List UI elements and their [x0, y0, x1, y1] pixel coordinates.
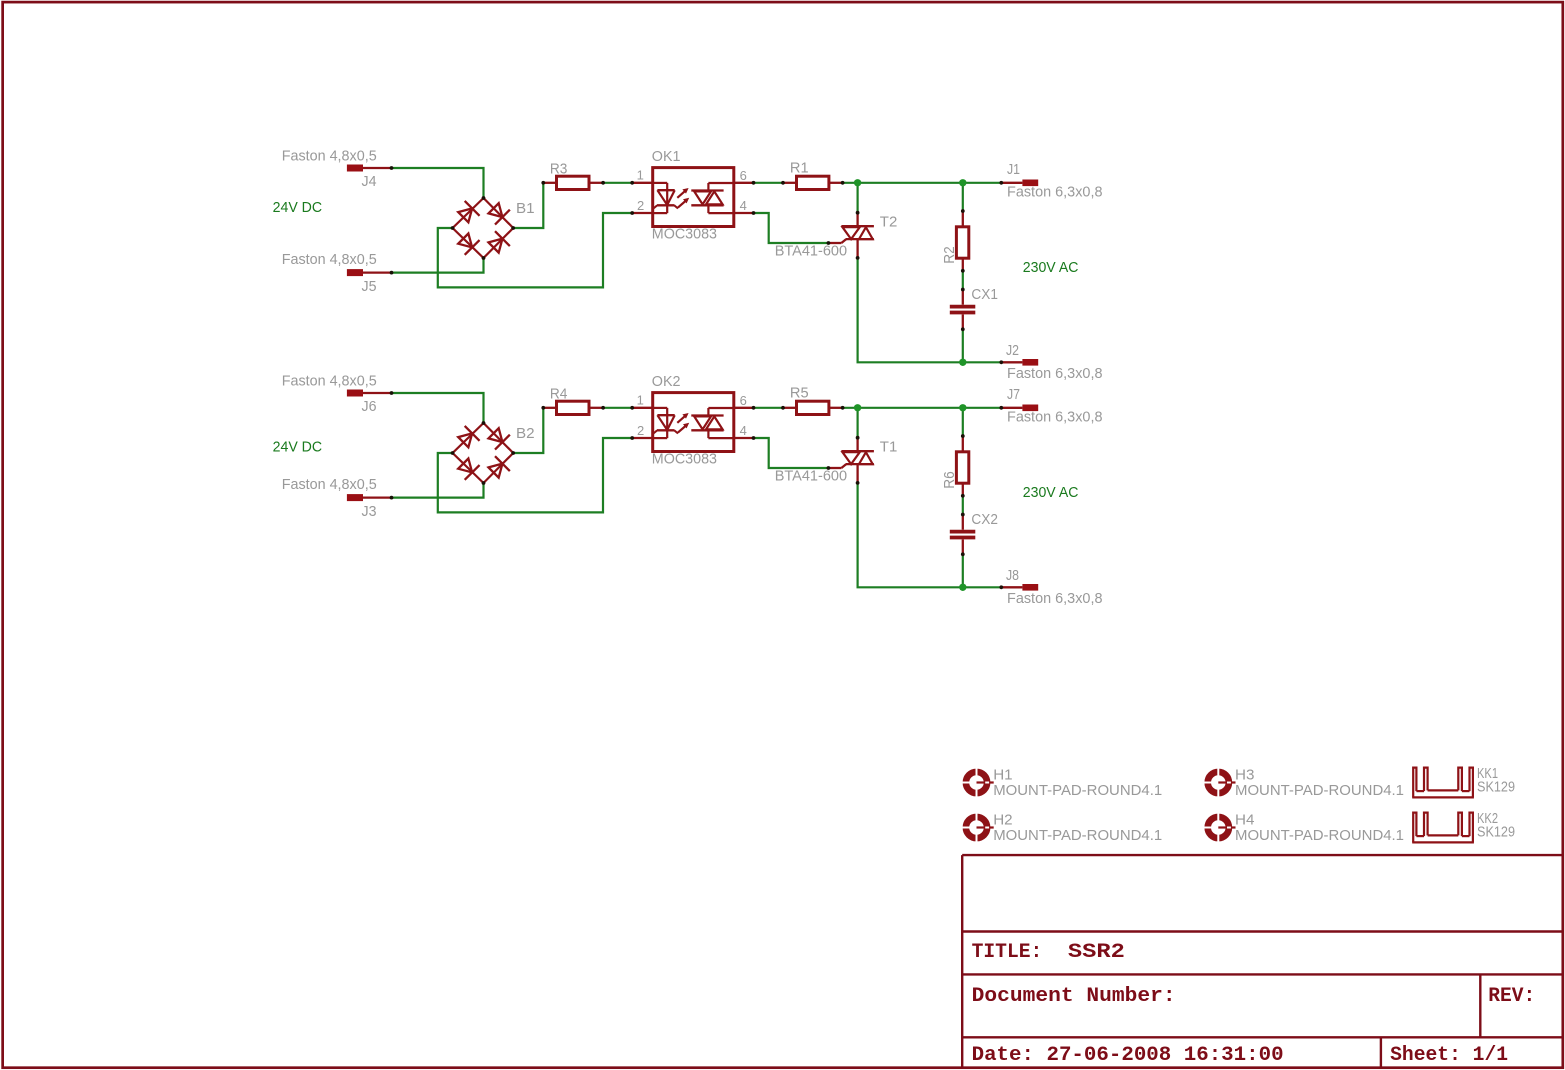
opto light arrows [677, 191, 685, 198]
svg-text:Faston 4,8x0,5: Faston 4,8x0,5 [282, 147, 377, 164]
wire: bridge left vertex to optocoupler pin 2 [438, 213, 632, 287]
opto pin 1 [632, 182, 653, 184]
svg-text:MOC3083: MOC3083 [652, 226, 717, 243]
svg-text:Faston 4,8x0,5: Faston 4,8x0,5 [282, 476, 377, 493]
svg-text:J5: J5 [362, 278, 377, 295]
input resistor (left) [543, 182, 556, 184]
snubber resistor (vertical) [962, 211, 964, 227]
svg-text:Sheet: 1/1: Sheet: 1/1 [1390, 1044, 1508, 1067]
bridge diode bottom-left [456, 231, 480, 255]
heatsink KK2 [1412, 813, 1474, 843]
svg-text:CX2: CX2 [971, 511, 998, 528]
svg-text:R3: R3 [550, 161, 568, 178]
svg-text:J6: J6 [362, 398, 377, 415]
connector pad J (230V top) [1022, 180, 1038, 187]
svg-text:H4: H4 [1235, 812, 1254, 829]
junction node at snubber top [959, 179, 966, 186]
channel 1 circuit [347, 165, 1038, 366]
svg-text:B1: B1 [516, 200, 535, 217]
svg-text:J8: J8 [1006, 567, 1019, 584]
svg-text:CX1: CX1 [971, 286, 998, 303]
wire: J5 pad to bridge bottom [393, 258, 484, 273]
svg-text:H2: H2 [993, 812, 1012, 829]
bridge vertex dots [482, 196, 486, 200]
channel 2 circuit [347, 390, 1038, 592]
svg-text:1: 1 [637, 168, 644, 183]
svg-text:2: 2 [637, 198, 644, 213]
opto pin 2 [632, 212, 653, 214]
svg-text:6: 6 [740, 168, 747, 183]
opto internal LED [653, 182, 668, 184]
svg-text:Faston 6,3x0,8: Faston 6,3x0,8 [1007, 409, 1103, 426]
svg-text:Faston 6,3x0,8: Faston 6,3x0,8 [1007, 365, 1103, 382]
svg-text:BTA41-600: BTA41-600 [775, 243, 847, 260]
wire: opto pin 4 to triac gate [754, 213, 829, 243]
output resistor [783, 182, 797, 184]
svg-text:230V AC: 230V AC [1023, 484, 1079, 501]
svg-text:B2: B2 [516, 425, 535, 442]
wire: snubber resistor to capacitor [962, 271, 964, 290]
svg-text:J3: J3 [362, 503, 377, 520]
svg-text:SK129: SK129 [1477, 779, 1515, 796]
opto pin 4 [734, 212, 754, 214]
connector pad J (24V top) [347, 165, 363, 172]
svg-text:SK129: SK129 [1477, 824, 1515, 841]
mount pad H3 [1203, 768, 1235, 798]
mount pad H2 [962, 813, 994, 843]
svg-text:REV:: REV: [1488, 985, 1535, 1008]
svg-text:H3: H3 [1235, 767, 1254, 784]
svg-text:H1: H1 [993, 767, 1012, 784]
connector pad J (230V bottom) [1022, 359, 1038, 366]
svg-text:Faston 4,8x0,5: Faston 4,8x0,5 [282, 372, 377, 389]
svg-text:R6: R6 [941, 471, 958, 489]
svg-text:J4: J4 [362, 173, 377, 190]
svg-text:Faston 6,3x0,8: Faston 6,3x0,8 [1007, 184, 1103, 201]
svg-text:Document Number:: Document Number: [972, 985, 1176, 1008]
wire: triac cathode to bottom rail [858, 258, 1002, 362]
svg-text:6: 6 [740, 393, 747, 408]
svg-text:R4: R4 [550, 386, 568, 403]
svg-text:R2: R2 [941, 246, 958, 264]
opto internal triac [708, 182, 733, 184]
wire: output resistor to J-pad node [843, 182, 1002, 184]
svg-text:J2: J2 [1006, 342, 1019, 359]
svg-text:4: 4 [740, 423, 747, 438]
svg-text:R1: R1 [790, 160, 809, 177]
wire: resistor to opto pin 1 [603, 182, 632, 184]
svg-text:MOUNT-PAD-ROUND4.1: MOUNT-PAD-ROUND4.1 [993, 782, 1162, 799]
svg-text:R5: R5 [790, 385, 809, 402]
connector pad J (24V bottom) [347, 269, 363, 276]
svg-text:230V AC: 230V AC [1023, 259, 1079, 276]
svg-text:T2: T2 [880, 213, 898, 230]
svg-text:1: 1 [637, 393, 644, 408]
svg-text:OK1: OK1 [652, 148, 681, 165]
wire: node to snubber resistor [962, 183, 964, 211]
svg-text:TITLE:: TITLE: [972, 941, 1043, 964]
svg-text:Faston 6,3x0,8: Faston 6,3x0,8 [1007, 590, 1103, 607]
wire: bridge right vertex to R series resistor [513, 183, 543, 228]
bridge diode bottom-right [486, 231, 510, 255]
svg-text:24V DC: 24V DC [273, 199, 323, 216]
wire: opto pin 6 to output resistor [754, 182, 784, 184]
title block outline [961, 855, 963, 1068]
svg-text:J7: J7 [1007, 386, 1020, 403]
triac gate pin [828, 242, 841, 244]
svg-text:MOUNT-PAD-ROUND4.1: MOUNT-PAD-ROUND4.1 [1235, 782, 1404, 799]
svg-text:4: 4 [740, 198, 747, 213]
svg-text:Date: 27-06-2008 16:31:00: Date: 27-06-2008 16:31:00 [972, 1044, 1284, 1067]
svg-text:MOUNT-PAD-ROUND4.1: MOUNT-PAD-ROUND4.1 [993, 827, 1162, 844]
triac (discrete) [856, 213, 858, 227]
bridge diode top-right [486, 201, 510, 225]
svg-text:MOUNT-PAD-ROUND4.1: MOUNT-PAD-ROUND4.1 [1235, 827, 1404, 844]
wire: capacitor to bottom rail [962, 329, 964, 362]
opto pin 6 [734, 182, 754, 184]
svg-text:SSR2: SSR2 [1068, 941, 1125, 964]
junction node at snubber bottom [959, 359, 966, 366]
heatsink KK1 [1412, 768, 1474, 798]
wire: node to triac anode [856, 183, 858, 213]
wire: J4 pad to bridge top [393, 168, 484, 198]
svg-text:Faston 4,8x0,5: Faston 4,8x0,5 [282, 251, 377, 268]
svg-text:J1: J1 [1007, 161, 1020, 178]
snubber capacitor [962, 290, 964, 305]
svg-text:24V DC: 24V DC [273, 439, 323, 456]
svg-text:MOC3083: MOC3083 [652, 451, 717, 468]
bridge rectifier diamond [453, 198, 514, 258]
svg-text:2: 2 [637, 423, 644, 438]
svg-text:OK2: OK2 [652, 373, 681, 390]
svg-text:T1: T1 [880, 438, 898, 455]
junction node at triac top [854, 179, 861, 186]
svg-text:BTA41-600: BTA41-600 [775, 468, 847, 485]
bridge diode top-left [456, 201, 480, 225]
mount pad H4 [1203, 813, 1235, 843]
optocoupler box [653, 168, 734, 227]
mount pad H1 [962, 768, 994, 798]
